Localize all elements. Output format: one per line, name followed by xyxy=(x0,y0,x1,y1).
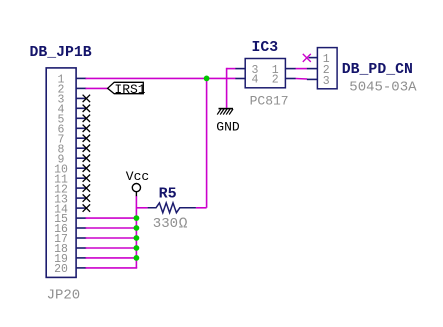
wire Vcc rail to R5 left lead xyxy=(136,207,147,209)
JP20 pin 6 stub xyxy=(76,127,86,129)
IC3 left pin stub y=69 xyxy=(235,68,245,70)
svg-text:GND: GND xyxy=(216,119,240,134)
svg-text:R5: R5 xyxy=(159,186,177,203)
no-connect X on JP20 pin 7 xyxy=(83,135,91,142)
JP20 pin 8 stub xyxy=(76,147,86,149)
IC3 right pin stub y=69 xyxy=(285,68,295,70)
wire GND net to IC3 pin 3 xyxy=(227,68,236,70)
JP20 pin 5 stub xyxy=(76,117,86,119)
JP20 pin 1 stub xyxy=(76,77,86,79)
junction Vcc rail at pin 18 xyxy=(134,245,140,251)
net label IRS1 flag outline xyxy=(108,82,144,93)
svg-text:2: 2 xyxy=(272,74,279,87)
JP20 pin 13 stub xyxy=(76,197,86,199)
JP20 pin 14 stub xyxy=(76,207,86,209)
connector DB_PD_CN body xyxy=(317,48,337,89)
svg-text:Vcc: Vcc xyxy=(126,169,149,184)
junction Vcc rail at pin 19 xyxy=(134,255,140,261)
IC3 body xyxy=(245,59,285,88)
JP20 pin 17 stub xyxy=(76,237,86,239)
svg-text:DB_PD_CN: DB_PD_CN xyxy=(342,62,413,78)
svg-text:IRS1: IRS1 xyxy=(114,82,145,97)
svg-text:Ω: Ω xyxy=(179,217,188,233)
JP20 pin 12 stub xyxy=(76,187,86,189)
JP20 pin 9 stub xyxy=(76,157,86,159)
JP20 pin 2 stub xyxy=(76,87,86,89)
wire IC3 pin 2 to DB_PD_CN pin 3 xyxy=(295,78,307,81)
connector JP20 body xyxy=(46,68,76,278)
wire R5 right lead to vertical riser xyxy=(196,207,207,209)
wire Vcc vertical rail xyxy=(135,196,137,268)
JP20 pin 20 stub xyxy=(76,267,86,269)
junction Vcc rail at pin 15 xyxy=(134,215,140,221)
power symbol Vcc stem xyxy=(135,192,137,197)
svg-text:20: 20 xyxy=(54,263,68,276)
wire vertical riser R5 to pin1 net xyxy=(206,78,208,207)
resistor R5 body zigzag xyxy=(148,203,196,213)
IC3 right pin stub y=78 xyxy=(285,78,295,80)
ground symbol hatches xyxy=(217,109,233,115)
svg-text:PC817: PC817 xyxy=(250,94,289,109)
wire JP20 pin 19 to Vcc rail xyxy=(86,257,137,259)
JP20 pin 4 stub xyxy=(76,107,86,109)
JP20 pin 15 stub xyxy=(76,217,86,219)
JP20 pin 7 stub xyxy=(76,137,86,139)
no-connect X on JP20 pin 8 xyxy=(83,145,91,152)
JP20 pin 3 stub xyxy=(76,97,86,99)
JP20 pin 11 stub xyxy=(76,177,86,179)
wire JP20 pin 15 to Vcc rail xyxy=(86,217,137,219)
svg-text:330: 330 xyxy=(153,216,178,232)
svg-text:3: 3 xyxy=(323,75,330,88)
junction Vcc rail at pin 17 xyxy=(134,235,140,241)
wire GND net vertical xyxy=(226,68,228,108)
no-connect X on JP20 pin 3 xyxy=(83,95,91,102)
no-connect X on JP20 pin 4 xyxy=(83,105,91,112)
wire JP20 pin 2 to net label IRS1 xyxy=(86,87,108,89)
wire JP20 pin 17 to Vcc rail xyxy=(86,237,137,239)
wire JP20 pin 18 to Vcc rail xyxy=(86,247,137,249)
JP20 pin 16 stub xyxy=(76,227,86,229)
junction Vcc rail at pin 16 xyxy=(134,225,140,231)
svg-text:IC3: IC3 xyxy=(252,40,279,56)
no-connect X on JP20 pin 13 xyxy=(83,194,91,201)
svg-text:JP20: JP20 xyxy=(47,287,81,303)
ground symbol bar xyxy=(219,108,234,110)
no-connect X on JP20 pin 10 xyxy=(83,165,91,172)
no-connect X on DB_PD_CN pin 1 xyxy=(303,54,311,62)
wire JP20 pin 20 to Vcc rail xyxy=(86,267,138,269)
wire JP20 pin 16 to Vcc rail xyxy=(86,227,137,229)
svg-text:4: 4 xyxy=(251,74,258,87)
wire JP20 pin 1 to IC3 pin 4 xyxy=(86,77,236,79)
no-connect X on JP20 pin 6 xyxy=(83,125,91,132)
no-connect X on JP20 pin 11 xyxy=(83,175,91,182)
no-connect X on JP20 pin 14 xyxy=(83,204,91,211)
DB_PD_CN pin 3 stub xyxy=(307,78,318,80)
JP20 pin 10 stub xyxy=(76,167,86,169)
junction at pin1 net and R5 riser xyxy=(204,76,210,82)
IC3 left pin stub y=78 xyxy=(235,78,245,80)
wire IC3 pin 1 to DB_PD_CN pin 2 xyxy=(295,68,307,70)
no-connect X on JP20 pin 9 xyxy=(83,155,91,162)
svg-text:DB_JP1B: DB_JP1B xyxy=(30,45,92,61)
JP20 pin 19 stub xyxy=(76,257,86,259)
JP20 pin 18 stub xyxy=(76,247,86,249)
no-connect X on JP20 pin 5 xyxy=(83,115,91,122)
svg-text:5045-03A: 5045-03A xyxy=(349,80,417,96)
power symbol Vcc circle xyxy=(132,184,140,192)
no-connect X on JP20 pin 12 xyxy=(83,184,91,191)
DB_PD_CN pin 2 stub xyxy=(307,68,318,70)
DB_PD_CN pin 1 stub xyxy=(309,57,318,59)
